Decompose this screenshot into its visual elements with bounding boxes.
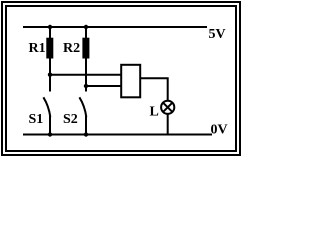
wire: 5V top rail [23,26,207,28]
wire: R2 bottom lead down to switch S2 top contact [85,58,87,92]
svg-text:R2: R2 [63,41,80,56]
resistor R2 body [82,38,89,59]
wire: lamp bottom lead to 0V rail [167,114,169,135]
wire: S2 bottom lead to 0V rail [85,116,87,135]
wire: R1 top lead [49,27,51,39]
wire: node A to gate input 1 [50,74,121,76]
switch S1 blade [43,97,50,117]
wire: gate output to lamp [141,78,168,101]
junction: R1 / 5V rail [48,25,52,29]
wire: R1 bottom lead down to switch S1 top contact [49,58,51,92]
resistor R1 body [46,38,53,59]
svg-text:L: L [150,105,159,120]
svg-text:S2: S2 [63,112,78,127]
node B: R2/S2/gate input 2 [84,84,88,88]
lamp L (circle) [161,101,174,114]
lamp L cross stroke 2 [163,103,172,112]
lamp L cross stroke 1 [163,103,172,112]
junction: S1 / 0V rail [48,132,52,136]
wire: 0V bottom rail [23,134,212,136]
svg-text:R1: R1 [29,41,46,56]
svg-text:5V: 5V [209,27,226,42]
node A: R1/S1/gate input 1 [48,73,52,77]
junction: S2 / 0V rail [84,132,88,136]
junction: R2 / 5V rail [84,25,88,29]
switch S2 blade [79,97,86,117]
wire: S1 bottom lead to 0V rail [49,116,51,135]
wire: R2 top lead [85,27,87,39]
logic gate U1 (box) [121,65,140,98]
wire: node B to gate input 2 [86,85,121,87]
svg-text:0V: 0V [211,123,228,138]
svg-text:S1: S1 [29,112,44,127]
